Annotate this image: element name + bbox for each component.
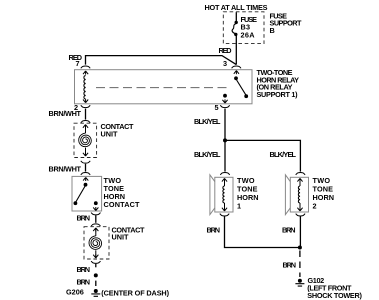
svg-text:7: 7 [76,59,80,68]
contact unit lead in [85,125,87,134]
wire from hot feed into fuse [235,12,237,21]
connector above contact unit 2 [91,224,100,226]
relay coil [84,76,86,100]
connector below contact unit 2 [91,261,100,263]
connector at pin 3 [232,66,241,68]
connector below horn contact [91,213,100,215]
wire BRN horn 2 to junction [299,216,301,246]
svg-text:BRN: BRN [207,226,221,235]
wire BRN (dashed) to G102 [299,251,301,278]
wire RED branch to relay pin 7 [86,56,237,65]
wire BLK/YEL splice to horn 1 [224,140,226,171]
svg-text:B: B [270,26,275,35]
wire BRN/WHT pin2 to contact unit [85,109,87,120]
connector below horn 2 [296,214,305,216]
connector above contact unit [81,121,90,123]
wire BRN to G206 [95,281,97,286]
connector below contact unit [81,161,90,163]
svg-text:1: 1 [237,202,241,211]
contact unit entry arrow [83,125,88,129]
svg-text:SUPPORT 1): SUPPORT 1) [257,90,299,99]
svg-text:UNIT: UNIT [112,233,130,242]
contact unit 2 lead in [95,228,97,236]
contact unit box (dashed) [74,123,97,157]
svg-text:BLK/YEL: BLK/YEL [270,150,297,159]
svg-text:BRN: BRN [283,260,297,269]
wire BLK/YEL pin5 to splice [224,109,226,139]
svg-text:BRN/WHT: BRN/WHT [49,109,82,118]
contact unit spiral [79,133,92,147]
connector above horn 1 [220,173,229,175]
relay coil pin7 arrow [83,71,88,75]
svg-text:3: 3 [223,59,227,68]
relay coil pin2 arrow [83,99,88,103]
horn contact switch [74,183,88,205]
svg-text:BRN: BRN [77,265,91,274]
connector at pin 5 [220,105,229,107]
svg-text:26A: 26A [241,30,256,39]
horn contact entry arrow [83,177,88,181]
contact unit 2 entry arrow [93,228,98,232]
svg-text:BLK/YEL: BLK/YEL [194,150,221,159]
connector above horn contact [81,173,90,175]
splice node S [223,138,227,142]
svg-text:SHOCK TOWER): SHOCK TOWER) [307,291,362,300]
connector above horn 2 [296,173,305,175]
relay switch arm [234,71,248,99]
contact unit lead out [85,148,87,156]
relay internal dash link [96,87,231,89]
contact unit 2 spiral [89,236,102,250]
contact unit 2 lead out [95,250,97,258]
connector at pin 7 [81,66,90,68]
connector below horn 1 [220,214,229,216]
connector at pin 2 [81,105,90,107]
svg-text:RED: RED [219,46,232,55]
wire BRN stub [95,264,97,268]
svg-text:UNIT: UNIT [101,130,119,139]
wire BRN horn contact to contact unit 2 [95,215,97,223]
relay switch fixed contact to pin 5 [222,94,227,103]
svg-text:HOT AT ALL TIMES: HOT AT ALL TIMES [205,3,268,12]
svg-text:(CENTER OF DASH): (CENTER OF DASH) [101,288,169,297]
svg-text:BRN: BRN [77,213,91,222]
svg-text:BLK/YEL: BLK/YEL [194,117,221,126]
contact unit 2 box (dashed) [84,227,109,259]
wire BLK/YEL splice to horn 2 [225,140,300,171]
svg-text:G206: G206 [66,288,84,297]
splice node [94,273,98,277]
contact unit 2 exit arrow [93,254,98,258]
svg-text:2: 2 [313,202,317,211]
wire BRN horn 1 to junction [225,216,299,247]
fuse support box (dashed) [223,12,264,44]
ground G102 [295,279,304,286]
svg-text:BRN: BRN [282,226,296,235]
wire RED from fuse to relay pin 3 [235,35,237,64]
contact unit exit arrow [83,152,88,156]
two tone horn 1 [210,175,233,215]
svg-text:5: 5 [215,103,219,112]
two-tone horn relay box [75,70,253,104]
junction node [298,246,302,250]
svg-text:CONTACT: CONTACT [104,200,141,209]
fuse F (B3 26A) [232,21,238,36]
two tone horn 2 [285,175,308,215]
two tone horn contact box [72,176,102,211]
wire BRN/WHT contact unit to horn contact [85,164,87,172]
ground G206 [91,289,100,296]
horn contact output contact [93,201,98,210]
svg-text:BRN: BRN [77,277,91,286]
svg-text:BRN/WHT: BRN/WHT [49,164,82,173]
